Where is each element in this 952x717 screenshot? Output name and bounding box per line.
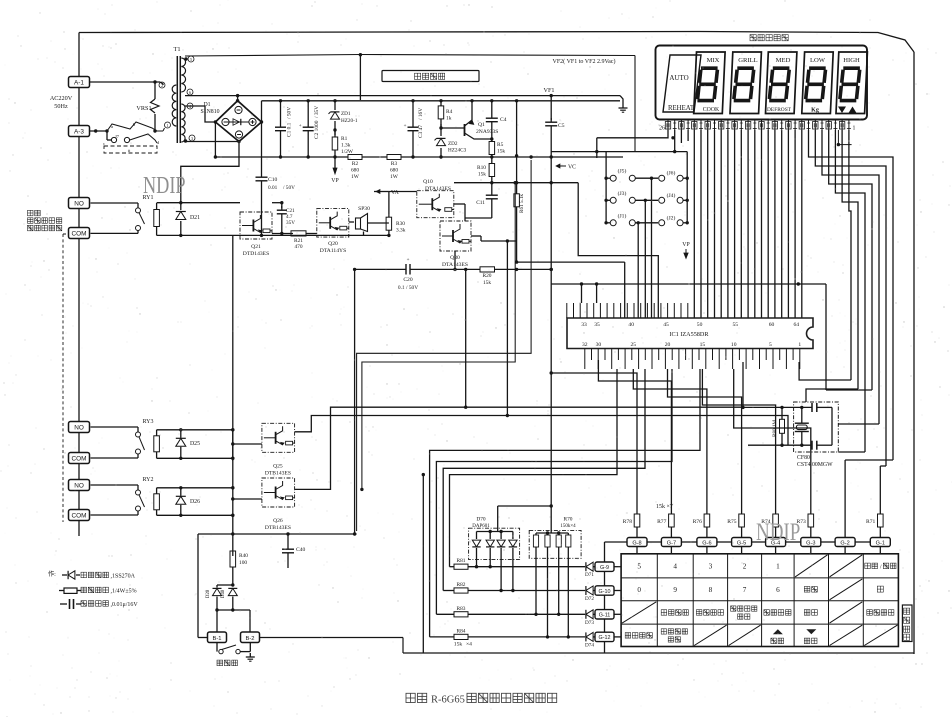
- svg-text:RY3: RY3: [142, 419, 153, 425]
- svg-text:G-10: G-10: [599, 589, 611, 595]
- svg-text:15k: 15k: [497, 149, 505, 155]
- svg-text:45: 45: [663, 322, 669, 328]
- svg-text:Q1: Q1: [478, 122, 485, 128]
- svg-text:/: /: [880, 563, 882, 570]
- svg-text:64: 64: [794, 322, 800, 328]
- svg-text:/ 50V: / 50V: [283, 185, 295, 191]
- svg-text:Q26: Q26: [273, 518, 283, 524]
- svg-text:Q21: Q21: [251, 244, 261, 250]
- svg-text:DTD143ES: DTD143ES: [243, 251, 269, 257]
- svg-text:R75: R75: [727, 519, 737, 525]
- svg-text:2: 2: [743, 562, 747, 570]
- svg-text:MIX: MIX: [707, 57, 720, 64]
- svg-text:150k×4: 150k×4: [560, 524, 576, 529]
- svg-text:R77: R77: [657, 519, 667, 525]
- svg-text:D40: D40: [221, 589, 226, 598]
- svg-text:R84: R84: [457, 628, 466, 634]
- svg-text:/ 16V: / 16V: [418, 108, 424, 120]
- svg-text:VF1: VF1: [543, 87, 554, 94]
- svg-text:40: 40: [628, 322, 634, 328]
- svg-text:R81: R81: [457, 558, 466, 564]
- svg-text:G-11: G-11: [599, 613, 611, 619]
- svg-text:NDIP: NDIP: [756, 517, 800, 545]
- svg-text:×7: ×7: [667, 504, 673, 510]
- svg-text:1: 1: [853, 126, 856, 132]
- svg-text:(J1): (J1): [618, 212, 627, 219]
- svg-text:/ 35V: / 35V: [314, 106, 320, 118]
- svg-text:D70: D70: [476, 517, 486, 523]
- svg-text:C11: C11: [476, 200, 485, 206]
- svg-text:(J3): (J3): [618, 190, 627, 197]
- svg-text:R-6G65: R-6G65: [431, 695, 465, 706]
- svg-text:(J2): (J2): [667, 214, 676, 221]
- svg-text:3.3k: 3.3k: [396, 228, 406, 234]
- svg-text:C5: C5: [558, 123, 565, 129]
- svg-text:作:: 作:: [48, 570, 56, 578]
- svg-text:C1 0.1: C1 0.1: [287, 122, 293, 137]
- svg-text:COOK: COOK: [703, 107, 720, 113]
- svg-text:R40: R40: [239, 553, 248, 559]
- svg-text:1k: 1k: [446, 116, 452, 122]
- svg-text:6: 6: [776, 586, 780, 594]
- svg-text:G-3: G-3: [806, 541, 815, 547]
- svg-text:20: 20: [665, 342, 671, 348]
- svg-text:G-5: G-5: [737, 541, 746, 547]
- svg-text:DTB143ES: DTB143ES: [265, 525, 291, 531]
- svg-text:Q25: Q25: [273, 463, 283, 469]
- svg-text:Q20: Q20: [328, 241, 338, 247]
- svg-text:D71: D71: [585, 572, 594, 578]
- svg-text:+: +: [299, 124, 302, 129]
- svg-text:G-6: G-6: [702, 541, 711, 547]
- svg-text:680: 680: [390, 168, 398, 174]
- svg-text:R3: R3: [391, 161, 398, 167]
- svg-text:15k: 15k: [483, 280, 491, 286]
- svg-text:G-12: G-12: [599, 635, 611, 641]
- svg-text:50: 50: [697, 322, 703, 328]
- svg-text:5: 5: [769, 342, 772, 348]
- svg-text:1W: 1W: [390, 174, 399, 180]
- svg-text:R78: R78: [623, 519, 633, 525]
- svg-text:Kg: Kg: [811, 108, 819, 114]
- svg-text:1: 1: [166, 123, 168, 128]
- svg-text:15: 15: [700, 342, 706, 348]
- svg-text:5: 5: [190, 57, 192, 62]
- svg-text:10: 10: [731, 342, 737, 348]
- svg-text:R71: R71: [866, 519, 876, 525]
- svg-text:6: 6: [189, 90, 191, 95]
- svg-text:,0.01μ/16V: ,0.01μ/16V: [111, 602, 139, 608]
- svg-text:LOW: LOW: [810, 57, 826, 64]
- svg-text:C40: C40: [296, 547, 306, 553]
- svg-text:D26: D26: [190, 499, 200, 505]
- svg-text:HZ20-1: HZ20-1: [341, 118, 358, 124]
- svg-text:A-3: A-3: [74, 128, 84, 135]
- svg-text:NO: NO: [74, 482, 84, 489]
- svg-text:VP: VP: [682, 242, 689, 248]
- svg-text:A-1: A-1: [74, 79, 84, 86]
- svg-text:32: 32: [582, 342, 588, 348]
- svg-text:(J4): (J4): [667, 192, 676, 199]
- svg-text:33: 33: [581, 322, 587, 328]
- svg-text:RY2: RY2: [142, 477, 153, 483]
- svg-text:R30: R30: [396, 221, 405, 227]
- svg-text:HIGH: HIGH: [843, 57, 860, 64]
- svg-text:DAP601: DAP601: [472, 524, 490, 529]
- svg-text:C3 47: C3 47: [418, 125, 424, 138]
- svg-text:R1: R1: [341, 136, 348, 142]
- svg-text:c: c: [103, 141, 105, 146]
- svg-text:VRS1: VRS1: [136, 105, 151, 112]
- svg-text:1: 1: [776, 562, 780, 570]
- svg-text:NO: NO: [74, 424, 84, 431]
- svg-text:R70: R70: [564, 517, 573, 523]
- svg-text:0.1 / 50V: 0.1 / 50V: [398, 285, 418, 291]
- svg-text:×4: ×4: [466, 642, 472, 648]
- svg-text:B-2: B-2: [245, 636, 254, 642]
- svg-text:R61 5.1k: R61 5.1k: [519, 194, 525, 213]
- svg-text:15k: 15k: [478, 172, 486, 178]
- svg-text:RY1: RY1: [142, 195, 153, 201]
- svg-text:680: 680: [351, 168, 359, 174]
- svg-text:G-8: G-8: [632, 541, 641, 547]
- svg-text:470: 470: [294, 244, 302, 250]
- svg-text:S1N810: S1N810: [200, 109, 219, 115]
- svg-text:55: 55: [733, 322, 739, 328]
- svg-text:1.3k: 1.3k: [341, 143, 351, 149]
- svg-text:D72: D72: [585, 596, 594, 602]
- svg-text:R2: R2: [352, 161, 359, 167]
- svg-text:0.01: 0.01: [268, 185, 278, 191]
- svg-text:AUTO: AUTO: [669, 74, 688, 82]
- svg-text:3: 3: [709, 562, 713, 570]
- svg-text:4: 4: [673, 562, 677, 570]
- svg-text:D20: D20: [206, 589, 211, 598]
- svg-text:T1: T1: [173, 46, 180, 53]
- svg-text:G-2: G-2: [840, 541, 849, 547]
- svg-text:26: 26: [659, 126, 665, 132]
- svg-text:R10: R10: [477, 165, 486, 171]
- svg-text:8: 8: [709, 586, 713, 594]
- svg-text:VP: VP: [331, 178, 338, 184]
- svg-text:G-7: G-7: [667, 541, 676, 547]
- svg-text:,1/4W±5%: ,1/4W±5%: [111, 589, 137, 595]
- svg-text:DEFROST: DEFROST: [767, 107, 792, 113]
- svg-text:(J6): (J6): [667, 170, 676, 177]
- svg-text:15k: 15k: [656, 504, 665, 510]
- svg-text:R5: R5: [497, 142, 504, 148]
- svg-text:C10: C10: [268, 177, 278, 183]
- svg-text:R20: R20: [483, 273, 492, 279]
- svg-text:B-1: B-1: [212, 636, 221, 642]
- svg-text:VF2( VF1 to VF2 2.9Vac): VF2( VF1 to VF2 2.9Vac): [553, 58, 616, 65]
- svg-text:DTA114YS: DTA114YS: [320, 248, 346, 254]
- svg-text:7: 7: [743, 586, 747, 594]
- svg-text:VC: VC: [568, 165, 576, 171]
- svg-text:CF80: CF80: [797, 455, 810, 461]
- svg-text:C2 1000: C2 1000: [314, 120, 320, 139]
- svg-text:COM: COM: [72, 455, 87, 462]
- svg-text:NO: NO: [74, 200, 84, 207]
- svg-text:G-9: G-9: [600, 565, 609, 571]
- svg-text:25: 25: [631, 342, 637, 348]
- svg-text:HZ24C3: HZ24C3: [448, 148, 467, 154]
- svg-text:G-1: G-1: [876, 541, 885, 547]
- svg-text:IC1 IZA558DR: IC1 IZA558DR: [669, 331, 709, 338]
- svg-text:AC220V: AC220V: [50, 95, 73, 102]
- svg-text:D25: D25: [190, 441, 200, 447]
- svg-text:ZD1: ZD1: [341, 111, 351, 117]
- svg-text:ZD2: ZD2: [448, 141, 458, 147]
- svg-text:5: 5: [637, 562, 641, 570]
- svg-text:+: +: [404, 124, 407, 129]
- svg-text:(J5): (J5): [618, 168, 627, 175]
- svg-text:C20: C20: [403, 277, 413, 283]
- svg-text:COM: COM: [72, 230, 87, 237]
- svg-text:50Hz: 50Hz: [54, 103, 68, 110]
- svg-text:R76: R76: [693, 519, 703, 525]
- svg-text:MED: MED: [776, 57, 791, 64]
- svg-text:2: 2: [161, 83, 163, 88]
- svg-text:9: 9: [673, 586, 677, 594]
- svg-text:35: 35: [594, 322, 600, 328]
- svg-text:15k: 15k: [454, 642, 463, 648]
- svg-text:Q10: Q10: [423, 179, 433, 185]
- svg-text:REHEAT: REHEAT: [668, 105, 695, 112]
- svg-text:D74: D74: [585, 642, 594, 648]
- svg-text:1: 1: [798, 342, 801, 348]
- svg-text:,1SS270A: ,1SS270A: [111, 574, 136, 580]
- svg-text:2NA933S: 2NA933S: [476, 129, 498, 135]
- svg-text:/ 50V: / 50V: [287, 107, 293, 119]
- svg-text:R83: R83: [457, 606, 466, 612]
- svg-text:R4: R4: [446, 109, 453, 115]
- svg-text:SP30: SP30: [358, 206, 370, 212]
- svg-text:D21: D21: [190, 215, 200, 221]
- svg-text:+: +: [407, 258, 410, 263]
- svg-text:DTB143ES: DTB143ES: [265, 470, 291, 476]
- svg-text:COM: COM: [72, 512, 87, 519]
- svg-text:a: a: [111, 124, 113, 129]
- svg-text:0: 0: [637, 586, 641, 594]
- svg-text:3: 3: [191, 136, 193, 141]
- svg-text:GRILL: GRILL: [738, 57, 757, 64]
- svg-text:C4: C4: [500, 117, 507, 123]
- svg-text:100: 100: [239, 560, 247, 566]
- svg-text:R82: R82: [457, 582, 466, 588]
- svg-text:1W: 1W: [351, 174, 360, 180]
- svg-text:30: 30: [596, 342, 602, 348]
- svg-text:CST4.00MGW: CST4.00MGW: [797, 462, 833, 468]
- svg-text:35V: 35V: [286, 220, 295, 226]
